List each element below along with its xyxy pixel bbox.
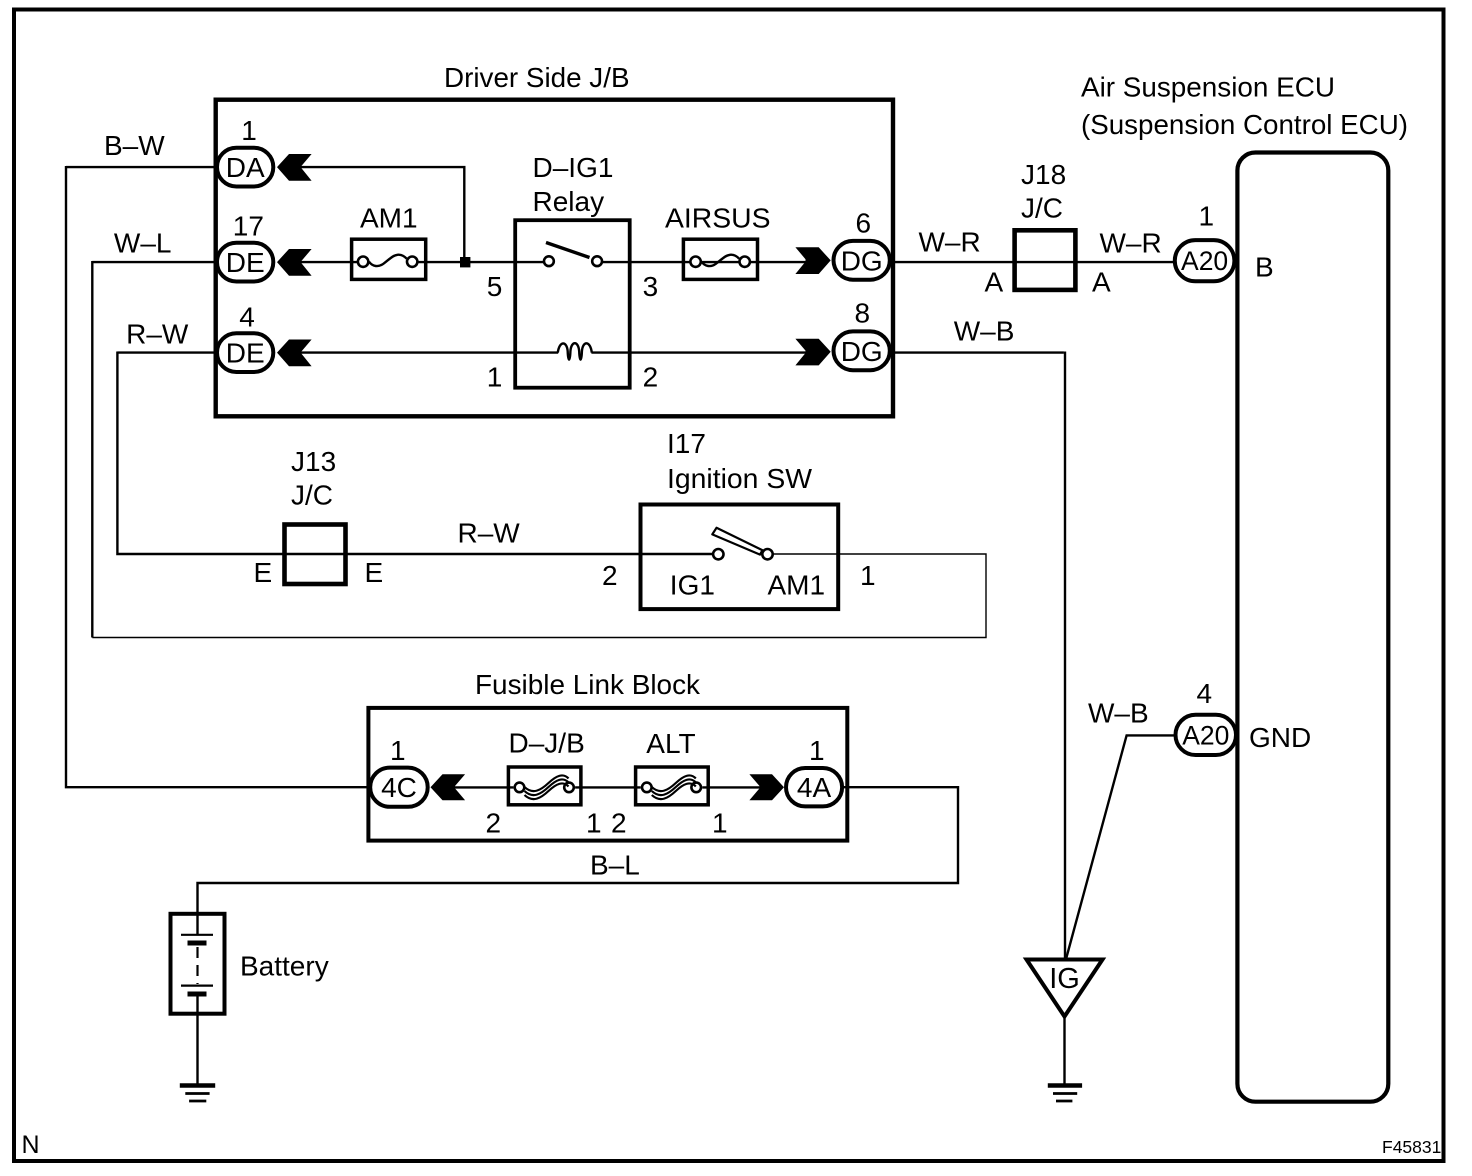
svg-text:W–R: W–R	[1100, 228, 1162, 259]
svg-text:3: 3	[643, 271, 659, 302]
IG ground symbol	[1048, 1083, 1082, 1088]
ECU connector A20	[1175, 240, 1235, 281]
svg-text:B: B	[1255, 252, 1274, 283]
svg-text:R–W: R–W	[126, 319, 189, 350]
svg-text:GND: GND	[1249, 722, 1311, 753]
svg-text:4: 4	[239, 302, 255, 333]
svg-text:DE: DE	[226, 338, 265, 369]
fusible link ALT element	[642, 783, 652, 793]
svg-text:1: 1	[241, 115, 257, 146]
IG ground triangle	[1027, 960, 1103, 1017]
connector DA pin 1	[217, 148, 273, 187]
svg-text:B–L: B–L	[590, 850, 640, 881]
svg-text:1: 1	[860, 560, 876, 591]
Fusible Link Block box	[368, 708, 847, 841]
fuse AIRSUS box	[683, 239, 757, 279]
svg-text:Ignition SW: Ignition SW	[667, 463, 813, 494]
svg-text:AIRSUS: AIRSUS	[665, 203, 771, 234]
junction node above relay pin 5	[460, 257, 470, 267]
ignition switch contacts	[713, 549, 723, 559]
svg-text:1: 1	[586, 808, 602, 839]
svg-text:1: 1	[809, 735, 825, 766]
arrow into DA	[277, 154, 312, 181]
connector DE pin 17	[217, 243, 273, 282]
svg-text:Driver Side J/B: Driver Side J/B	[444, 62, 630, 93]
connector DE pin 4	[217, 333, 273, 372]
svg-text:A20: A20	[1182, 721, 1229, 751]
svg-text:W–R: W–R	[919, 227, 981, 258]
arrow into DE4	[277, 340, 312, 367]
svg-text:J/C: J/C	[291, 480, 333, 511]
fusible link ALT box	[636, 767, 709, 805]
Driver Side J/B box	[216, 100, 893, 417]
connector DG pin 8	[834, 331, 890, 370]
svg-text:DE: DE	[226, 247, 265, 278]
svg-text:E: E	[254, 557, 273, 588]
svg-text:J/C: J/C	[1021, 193, 1063, 224]
wire W-L loop down and around to ignition switch pin 1	[91, 261, 93, 638]
svg-text:I17: I17	[667, 428, 706, 459]
connector 4C	[370, 768, 428, 807]
wire DE17 row through AM1 fuse and relay contacts to DG6	[301, 261, 359, 263]
wire fusible link row from 4C through D-J/B and ALT to 4A	[455, 786, 514, 788]
svg-text:W–B: W–B	[1088, 698, 1149, 729]
battery box	[171, 914, 225, 1014]
wire B-W from DA pin 1 to fusible link 4C	[66, 166, 217, 168]
fusible link D-J/B box	[508, 767, 581, 805]
svg-text:R–W: R–W	[458, 518, 521, 549]
svg-text:D–J/B: D–J/B	[509, 728, 585, 759]
svg-text:5: 5	[487, 271, 503, 302]
svg-text:4A: 4A	[797, 772, 832, 803]
svg-text:2: 2	[602, 560, 618, 591]
fusible link D-J/B element	[515, 783, 525, 793]
svg-text:17: 17	[233, 211, 264, 242]
svg-text:4C: 4C	[381, 772, 417, 803]
junction connector J13 J/C	[285, 525, 346, 585]
ECU connector A20 ground	[1176, 715, 1237, 755]
svg-text:1: 1	[1199, 201, 1215, 232]
svg-text:(Suspension Control ECU): (Suspension Control ECU)	[1081, 109, 1408, 140]
wire IG triangle to ground	[1063, 1015, 1065, 1084]
svg-text:W–B: W–B	[954, 316, 1015, 347]
svg-text:4: 4	[1197, 678, 1213, 709]
svg-text:1: 1	[390, 735, 406, 766]
svg-text:J13: J13	[291, 446, 336, 477]
svg-text:DA: DA	[226, 152, 265, 183]
svg-text:N: N	[22, 1131, 40, 1159]
battery ground symbol	[180, 1083, 215, 1088]
svg-text:B–W: B–W	[104, 130, 165, 161]
svg-text:E: E	[365, 557, 384, 588]
arrow into DG8	[795, 339, 830, 366]
svg-text:IG: IG	[1049, 963, 1080, 995]
svg-text:W–L: W–L	[114, 228, 172, 259]
connector 4A	[786, 768, 842, 806]
wire W-L from DE pin 17	[92, 261, 217, 263]
svg-text:DG: DG	[841, 245, 883, 276]
svg-text:1: 1	[487, 362, 503, 393]
fuse AIRSUS element	[690, 257, 700, 267]
svg-text:J18: J18	[1021, 159, 1066, 190]
ignition switch lever	[712, 528, 762, 555]
wire DE4 row through relay coil to DG8	[301, 351, 559, 353]
junction connector J18 J/C	[1015, 230, 1076, 290]
svg-text:F45831: F45831	[1382, 1137, 1441, 1157]
arrow into 4A	[749, 774, 784, 800]
fuse AM1 element	[358, 257, 368, 267]
wire from DA arrow to junction above AM1 output	[301, 167, 465, 262]
wire R-W from DE pin 4 down through J13 to ignition switch pin 2	[117, 351, 217, 353]
svg-text:1: 1	[712, 808, 728, 839]
svg-text:AM1: AM1	[360, 203, 418, 234]
relay switch lever	[546, 243, 590, 258]
svg-text:2: 2	[611, 808, 627, 839]
wire ignition switch AM1 contact to box right edge	[773, 553, 840, 555]
svg-text:Air Suspension ECU: Air Suspension ECU	[1081, 72, 1335, 103]
fuse AM1 box	[352, 239, 426, 279]
svg-text:Relay: Relay	[533, 186, 605, 217]
svg-text:AM1: AM1	[768, 570, 826, 601]
arrow into DG6	[795, 247, 830, 274]
Air Suspension ECU box	[1237, 153, 1388, 1102]
ignition switch I17 box	[641, 505, 839, 610]
relay D-IG1 box	[515, 220, 630, 388]
svg-text:6: 6	[856, 208, 872, 239]
svg-text:A20: A20	[1181, 246, 1228, 276]
svg-text:Fusible Link Block: Fusible Link Block	[475, 669, 701, 700]
svg-text:IG1: IG1	[670, 570, 715, 601]
relay switch contacts	[544, 256, 554, 266]
wire W-B from ECU A20 pin 4 diagonal to IG triangle	[1066, 735, 1174, 958]
svg-text:D–IG1: D–IG1	[533, 152, 614, 183]
svg-text:2: 2	[643, 362, 659, 393]
svg-text:2: 2	[486, 808, 502, 839]
connector DG pin 6	[834, 241, 890, 280]
wire W-B from DG8 to IG ground triangle	[891, 351, 1064, 353]
svg-text:A: A	[1092, 267, 1111, 298]
wire W-R from DG6 through J18 J/C to ECU A20 pin 1	[891, 261, 1174, 263]
svg-text:DG: DG	[841, 336, 883, 367]
svg-text:8: 8	[855, 298, 871, 329]
arrow into 4C	[431, 774, 466, 800]
wire B-L from 4A down and left to battery	[198, 787, 959, 935]
battery plates	[181, 934, 213, 936]
svg-text:A: A	[985, 267, 1004, 298]
svg-text:ALT: ALT	[646, 728, 695, 759]
svg-text:Battery: Battery	[240, 951, 329, 982]
arrow into DE17	[277, 249, 312, 276]
wire battery negative to ground	[196, 997, 198, 1085]
relay coil	[558, 343, 592, 360]
